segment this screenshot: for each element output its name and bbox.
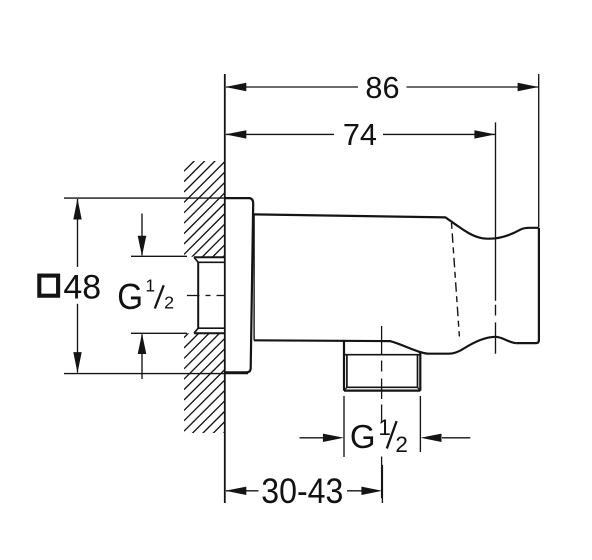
flange/arm junction line <box>253 216 255 341</box>
nipple centerline <box>381 326 383 498</box>
bottom G 1/2 dimension: extension lines <box>344 396 420 457</box>
svg-text:74: 74 <box>343 117 377 152</box>
svg-text:1: 1 <box>378 415 391 440</box>
wall hatching top block <box>184 130 225 296</box>
svg-text:G: G <box>117 277 143 317</box>
inlet thread small dimension: arrows <box>138 214 147 380</box>
dimension 30-43: right extension line <box>381 465 383 503</box>
dimension 48: vertical line and arrows <box>73 199 81 374</box>
escutcheon flange (side view) <box>225 198 253 372</box>
holder hidden tangent dashed line <box>452 223 460 337</box>
inlet thread small dimension: extension lines <box>131 256 187 333</box>
bottom outlet nipple <box>344 341 420 391</box>
dimension 74: extension / centerline of holder <box>495 122 497 353</box>
inlet thread centerline <box>187 295 225 297</box>
dimension 86: line and arrows <box>225 83 538 91</box>
dimension 86: right extension line <box>538 74 540 227</box>
svg-text:86: 86 <box>365 70 399 105</box>
svg-text:1: 1 <box>145 275 155 295</box>
body outline: holder right edge <box>516 228 539 343</box>
svg-text:2: 2 <box>395 432 408 457</box>
svg-text:2: 2 <box>164 293 174 313</box>
wall hatching bottom block <box>184 297 225 473</box>
body outline: holder bottom bump and dip, arm bottom <box>254 337 517 354</box>
dimension 48: extension lines <box>64 198 248 374</box>
svg-text:G: G <box>350 418 376 455</box>
dimension 74: line and arrows <box>225 130 495 138</box>
svg-text:30-43: 30-43 <box>261 472 343 511</box>
svg-text:48: 48 <box>63 268 101 306</box>
dimension 30-43: line and arrows <box>225 487 382 495</box>
wall surface line <box>224 74 226 503</box>
inlet thread (behind wall) <box>194 257 225 333</box>
bottom G 1/2 dimension: arrows <box>300 434 471 442</box>
body outline: arm top and holder top dip <box>253 214 539 238</box>
square symbol for 48 <box>39 276 58 296</box>
